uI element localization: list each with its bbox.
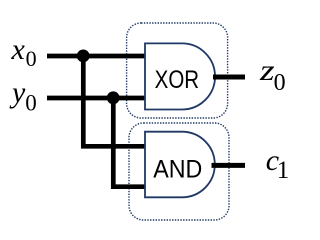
wire branch from x0 down to AND input A [83,56,146,146]
svg-text:x: x [11,33,26,66]
svg-text:1: 1 [277,157,290,184]
wire branch from y0 down to AND input B [113,98,146,187]
wire AND output c1 [212,163,246,168]
wire x0 horizontal to XOR input A [47,54,146,59]
svg-text:0: 0 [26,46,37,71]
wire y0 horizontal to XOR input B [47,96,146,101]
svg-text:AND: AND [153,156,202,184]
svg-text:0: 0 [274,70,286,96]
wire XOR output z0 [213,75,245,80]
dotted group box around AND [129,123,229,220]
svg-text:z: z [259,54,275,87]
svg-text:XOR: XOR [155,65,199,93]
AND gate U2 body [145,132,215,198]
svg-text:y: y [9,76,26,109]
svg-text:0: 0 [25,90,37,115]
XOR gate U1 body [145,43,215,109]
dotted group box around XOR [127,23,228,118]
junction dot on y0 net [107,91,120,104]
junction dot on x0 net [77,50,90,63]
